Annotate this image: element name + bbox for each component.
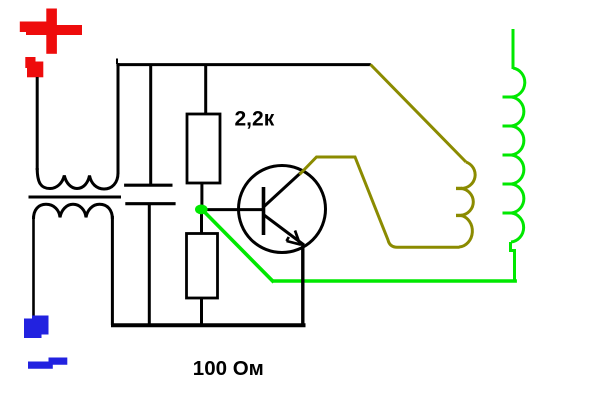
transformer core (29, 196, 122, 199)
svg-text:100 Ом: 100 Ом (193, 357, 264, 380)
L4 junction nubs (503, 97, 512, 213)
battery negative terminal blob (24, 316, 49, 339)
emitter wire to bottom rail (301, 244, 304, 326)
wire secondary to bottom rail (111, 216, 114, 325)
transistor emitter stroke (264, 215, 304, 245)
bottom rail wire (111, 323, 306, 327)
resistor R2 top lead (200, 214, 203, 234)
resistor R2 body 100 Ohm (187, 234, 218, 299)
transistor base bar (262, 187, 266, 235)
svg-text:2,2к: 2,2к (235, 107, 275, 130)
resistor R2 bottom lead (200, 298, 203, 325)
green bottom wire (273, 279, 517, 283)
capacitor C1 plates (124, 185, 176, 204)
resistor R1 bottom lead (200, 183, 203, 206)
wire primary to top rail (117, 63, 120, 174)
wire + terminal to primary winding (36, 77, 39, 170)
battery positive terminal (+) (20, 9, 82, 54)
negative sign (-) (28, 358, 67, 369)
green secondary riser top (512, 29, 515, 69)
transformer secondary winding L2 (34, 204, 113, 219)
resistor R1 body 2,2k (187, 114, 220, 183)
emitter arrowhead (287, 231, 302, 245)
node at transistor base (green dot) (195, 205, 208, 215)
collector olive wire to L3 bottom (300, 157, 460, 247)
capacitor C1 top lead (149, 64, 152, 185)
resistor R1 top lead (204, 64, 207, 114)
wire secondary to negative terminal (32, 216, 35, 316)
battery positive lead blob (25, 57, 43, 77)
transformer primary winding L1 (37, 168, 118, 189)
capacitor C1 bottom lead (148, 204, 151, 325)
base wire node to transistor (205, 208, 263, 211)
transistor collector stroke (264, 173, 301, 207)
transistor Q1 circle (239, 166, 326, 253)
top rail wire (116, 63, 370, 66)
output transformer winding L3 (olive coil) (459, 162, 475, 247)
green wire coil bottom jog (511, 242, 515, 281)
green diagonal wire to node (205, 212, 274, 282)
tick at top of riser (116, 59, 118, 65)
output winding L4 (green coil) (511, 68, 525, 242)
olive top diagonal from rail (371, 65, 467, 163)
L3 junction nubs (456, 188, 462, 215)
